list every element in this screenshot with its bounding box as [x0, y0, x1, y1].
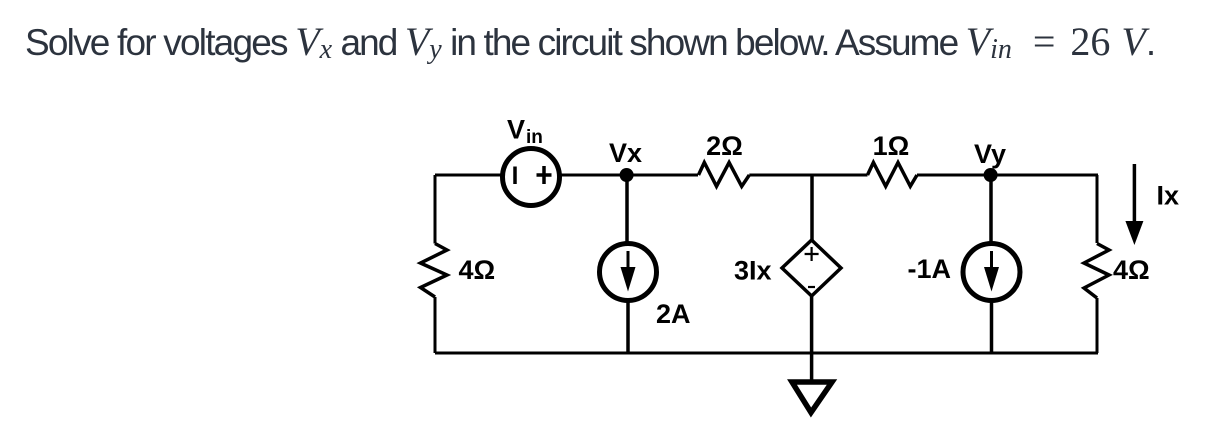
svg-text:3Ix: 3Ix [734, 256, 772, 286]
resistor 1-ohm [868, 163, 918, 187]
label Vin [507, 115, 543, 149]
label -1A [907, 254, 951, 284]
voltage source Vin [503, 149, 560, 206]
resistor 4-ohm left [421, 244, 448, 298]
svg-text:2Ω: 2Ω [706, 131, 743, 161]
node Vy [984, 168, 998, 182]
wire top-left horizontal [435, 174, 501, 177]
label 4-ohm left [459, 255, 496, 285]
svg-text:in: in [526, 127, 543, 148]
bottom wire [435, 352, 1098, 355]
current source -1A [963, 244, 1020, 301]
svg-text:Vx: Vx [609, 138, 642, 168]
label Vy [974, 139, 1006, 169]
svg-text:1Ω: 1Ω [873, 131, 910, 161]
wire left branch upper [434, 175, 437, 244]
svg-text:4Ω: 4Ω [1113, 255, 1150, 285]
label 2A [656, 299, 691, 329]
wire dependent source to ground [810, 296, 814, 381]
label 3Ix [734, 256, 772, 286]
wire right branch upper [1096, 175, 1099, 243]
wire from 1-ohm to right corner [917, 174, 1098, 177]
label 1-ohm [873, 131, 910, 161]
wire left branch lower [434, 297, 437, 353]
wire junction down to dependent source [810, 175, 814, 242]
problem statement title [25, 0, 1226, 70]
label 4-ohm right [1113, 255, 1150, 285]
wire 2A source to bottom [626, 301, 630, 353]
svg-text:Vy: Vy [974, 139, 1006, 169]
svg-text:2A: 2A [656, 299, 691, 329]
label 2-ohm [706, 131, 743, 161]
wire from 2-ohm to 1-ohm [749, 174, 867, 177]
current arrow Ix [1125, 164, 1143, 245]
svg-text:4Ω: 4Ω [459, 255, 496, 285]
wire from Vin to 2-ohm resistor [561, 174, 698, 177]
dependent source 3Ix diamond [782, 240, 841, 296]
svg-text:V: V [507, 115, 525, 145]
label Ix [1157, 181, 1180, 211]
ground [792, 382, 832, 413]
wire -1A source to bottom [990, 301, 994, 353]
wire Vx node down to 2A source [625, 175, 629, 243]
svg-text:-1A: -1A [907, 254, 951, 284]
current source 2A [600, 244, 657, 301]
wire Vy node down to -1A source [989, 175, 993, 243]
label Vx [609, 138, 642, 168]
resistor 2-ohm [699, 163, 750, 187]
resistor 4-ohm right [1084, 244, 1109, 299]
node Vx [620, 168, 634, 182]
wire right branch lower [1096, 298, 1099, 353]
svg-text:Ix: Ix [1157, 181, 1180, 211]
